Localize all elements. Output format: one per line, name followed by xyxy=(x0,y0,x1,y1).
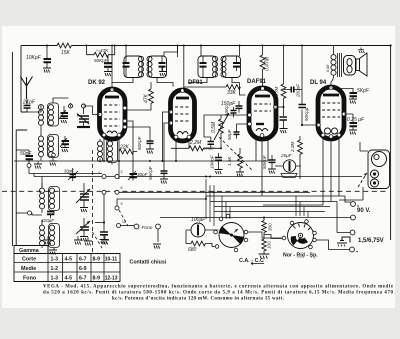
wire jack feeds xyxy=(339,142,368,200)
terminal RF low xyxy=(52,153,56,157)
terminal LT b xyxy=(317,240,358,252)
capacitor 50pF xyxy=(16,150,33,168)
capacitor 50pF daf xyxy=(227,128,240,140)
table text xyxy=(19,248,118,282)
trimmer cap 30pF mixer xyxy=(128,168,149,180)
wire left second vertical xyxy=(16,130,27,246)
IF transformer T2 loop1 xyxy=(198,56,218,78)
svg-text:10KpF: 10KpF xyxy=(210,154,215,169)
label DL 94 xyxy=(310,80,327,86)
IF transformer T2 loop2 xyxy=(221,56,241,78)
oscillator coil pair under DK92 xyxy=(97,139,117,165)
svg-text:6-7: 6-7 xyxy=(79,257,87,263)
svg-text:9: 9 xyxy=(121,202,123,206)
potentiometer 0,5M xyxy=(211,113,229,148)
wire left taps xyxy=(34,174,104,189)
pot link dashed xyxy=(219,137,252,170)
tube DK92 xyxy=(98,88,127,139)
svg-text:1,5/6,75V: 1,5/6,75V xyxy=(358,238,384,244)
svg-text:50KpF: 50KpF xyxy=(148,165,153,180)
wire x177 stub xyxy=(177,46,179,58)
svg-text:200pF: 200pF xyxy=(296,83,301,98)
wire chassis dashed line xyxy=(2,191,388,192)
capacitor 50pF df91 xyxy=(203,137,215,151)
svg-text:8-9: 8-9 xyxy=(93,276,101,282)
ground u50KpF2 xyxy=(160,179,168,184)
svg-text:4,7M: 4,7M xyxy=(274,87,279,97)
svg-text:2KpF: 2KpF xyxy=(22,100,36,106)
wire bus A2 xyxy=(29,168,102,174)
svg-text:VEGA - Mod. 415. Apparecchio s: VEGA - Mod. 415. Apparecchio supereterod… xyxy=(43,285,394,290)
svg-text:Fono: Fono xyxy=(142,225,153,231)
terminal contacts row xyxy=(98,170,126,228)
svg-text:da 520 a 1620 kc/s. Punti di t: da 520 a 1620 kc/s. Punti di taratura 58… xyxy=(43,291,394,296)
svg-text:1-3: 1-3 xyxy=(51,257,59,263)
wire osc links xyxy=(32,213,42,215)
ground under 100 xyxy=(259,251,270,259)
wire lower bus rows xyxy=(160,196,351,218)
resistor 2,2M vert xyxy=(290,136,302,179)
wire DL94 cathode drops xyxy=(263,137,339,205)
wire DAF91 left pin xyxy=(204,115,248,137)
svg-text:2,2M: 2,2M xyxy=(189,140,202,146)
electrolytic 25uF xyxy=(275,153,301,178)
trimmer upper xyxy=(59,106,68,123)
terminal 2 xyxy=(82,104,86,108)
svg-text:2,2M: 2,2M xyxy=(290,142,295,153)
svg-text:DL 94: DL 94 xyxy=(310,80,327,86)
label 90V xyxy=(357,208,371,214)
svg-text:100µF: 100µF xyxy=(191,217,206,223)
wire T2 to DAF91 grid xyxy=(240,87,246,95)
tuning cap main xyxy=(77,108,90,127)
resistor 0.47M vertical xyxy=(260,45,270,87)
svg-text:100: 100 xyxy=(267,241,272,249)
terminal LT a xyxy=(337,202,355,235)
svg-text:DF91: DF91 xyxy=(188,80,203,86)
ground mid left xyxy=(34,161,42,169)
svg-text:30pF: 30pF xyxy=(137,172,149,177)
svg-text:1-2: 1-2 xyxy=(51,266,59,272)
IF transformer T1 loop1 xyxy=(123,56,144,78)
label DAF91 xyxy=(247,79,267,85)
wire vertical A xyxy=(283,45,285,117)
svg-text:680: 680 xyxy=(188,247,197,253)
svg-text:kc/s. Potenza d’uscita indicat: kc/s. Potenza d’uscita indicata 120 mW. … xyxy=(112,297,284,302)
svg-text:25µF: 25µF xyxy=(280,153,293,158)
wire left antenna drop xyxy=(21,46,27,113)
phone jack right xyxy=(368,150,390,189)
svg-text:1-3: 1-3 xyxy=(51,276,59,282)
resistor 33K xyxy=(184,83,240,97)
label CA-CC xyxy=(239,258,264,265)
ground u50KpF xyxy=(146,149,154,154)
capacitor 50KpF top xyxy=(94,55,112,72)
resistor 47K vertical below T1 xyxy=(127,82,153,110)
svg-text:0.25 µF: 0.25 µF xyxy=(347,117,365,123)
wire switch drop verticals xyxy=(206,179,308,226)
svg-text:6-7: 6-7 xyxy=(79,276,87,282)
IF transformer T1 loop2 xyxy=(147,56,167,78)
svg-text:0,5M: 0,5M xyxy=(211,121,217,133)
svg-text:1: 1 xyxy=(98,171,100,175)
resistor 22K xyxy=(119,145,137,154)
ground under chain xyxy=(100,240,109,244)
svg-text:5KpF: 5KpF xyxy=(357,88,370,94)
label DF91 xyxy=(188,80,203,86)
ground 10KpF lower xyxy=(215,170,223,175)
ground 1,5K xyxy=(236,172,244,177)
capacitor 50KpF right xyxy=(262,154,276,169)
svg-text:47K: 47K xyxy=(144,93,150,103)
variable capacitor gang1 xyxy=(76,183,90,212)
oscillator coil pair lower xyxy=(39,220,59,250)
tube DF91 xyxy=(169,89,195,141)
ground under T1 right cap xyxy=(159,66,167,76)
svg-text:4-5: 4-5 xyxy=(65,276,73,282)
capacitor 420uF padder xyxy=(41,212,55,224)
svg-text:Gamma: Gamma xyxy=(19,248,40,254)
label DK 92 xyxy=(88,80,106,86)
resistor R 15K xyxy=(57,43,71,56)
svg-text:12-13: 12-13 xyxy=(105,276,118,282)
terminal 1 xyxy=(69,104,73,108)
capacitor 50KpF mixer2 xyxy=(148,165,168,180)
capacitor 200pF xyxy=(284,83,303,98)
antenna xyxy=(21,77,33,100)
ground under 10KpF xyxy=(43,68,51,73)
svg-text:DK 92: DK 92 xyxy=(88,80,106,86)
svg-text:Corte: Corte xyxy=(22,257,36,263)
RF coil pair lower xyxy=(38,130,58,161)
capacitor 150pF xyxy=(221,101,243,113)
svg-text:1,5K: 1,5K xyxy=(227,156,232,166)
svg-text:6-9: 6-9 xyxy=(79,266,87,272)
capacitor 10KpF top xyxy=(26,45,51,69)
svg-text:50pF: 50pF xyxy=(227,128,232,140)
label Contatti chiusi xyxy=(130,260,167,266)
capacitor 5KpF xyxy=(335,88,370,100)
gang dashed diagonal xyxy=(93,210,129,248)
capacitor 10KpF grid xyxy=(224,105,237,118)
ground under 5KpF xyxy=(349,99,357,104)
ground 50KpF right xyxy=(268,169,276,174)
battery symbol xyxy=(337,237,350,247)
svg-text:4-5: 4-5 xyxy=(65,257,73,263)
output transformer xyxy=(326,46,342,88)
svg-text:10KpF: 10KpF xyxy=(26,55,42,61)
resistor 1,5K xyxy=(227,148,242,172)
svg-text:15K: 15K xyxy=(61,50,71,56)
ground fono xyxy=(153,244,161,249)
wire frame right border xyxy=(390,44,392,240)
RF coil pair upper xyxy=(27,98,71,130)
ground under osc coils xyxy=(49,250,57,255)
svg-text:≈·47K: ≈·47K xyxy=(96,48,109,53)
capacitor chain under terminal xyxy=(95,195,108,240)
svg-text:Fono: Fono xyxy=(23,276,37,282)
wire DAF91 pin tap xyxy=(237,124,248,128)
resistor 300 xyxy=(262,218,273,233)
wire frame left border xyxy=(11,52,13,246)
ground row above table 2 xyxy=(74,236,82,245)
wire DK92 anode up xyxy=(111,45,113,90)
ground under A xyxy=(280,129,288,134)
svg-text:Contatti chiusi: Contatti chiusi xyxy=(130,260,167,266)
wire DF91 anode up xyxy=(183,45,185,91)
trimmer lower xyxy=(60,136,69,152)
svg-text:10-11: 10-11 xyxy=(105,257,118,263)
svg-text:50KpF: 50KpF xyxy=(137,135,142,150)
tube DAF91 xyxy=(248,87,278,139)
wire DAF91 drops xyxy=(256,138,268,197)
ground under 50KpF top xyxy=(104,72,112,77)
wire T2 connections xyxy=(188,45,241,83)
ground row above table x88 xyxy=(84,237,92,246)
resistor 47K top xyxy=(86,45,116,58)
svg-text:0,08: 0,08 xyxy=(326,64,330,72)
wire DK92 bottom drops xyxy=(104,137,119,179)
terminal osc xyxy=(16,211,31,215)
capacitor 10KpF lower xyxy=(210,153,223,169)
wire terminal row 3 xyxy=(117,196,206,206)
capacitor 50KpF under A xyxy=(273,101,288,128)
variable capacitor gang2 xyxy=(76,218,90,241)
capacitor 50KpF under DK92 xyxy=(137,135,154,150)
oscillator coil pair upper xyxy=(39,183,59,215)
svg-text:300: 300 xyxy=(268,223,273,231)
wire DF91 pin taps xyxy=(163,112,171,166)
switch arrow jack xyxy=(358,173,367,187)
ground row above table 3 xyxy=(101,236,109,245)
capacitor 50KpF on B xyxy=(299,105,310,122)
svg-text:2: 2 xyxy=(121,170,123,174)
junction dots xyxy=(103,147,265,218)
resistor 680 xyxy=(186,230,282,253)
wire T1 connections xyxy=(112,45,179,87)
svg-text:33K: 33K xyxy=(227,90,237,96)
resistor 4,7M xyxy=(274,84,286,98)
wire to DK92 grid pin xyxy=(84,106,100,115)
svg-text:6: 6 xyxy=(121,186,123,190)
resistor 100 xyxy=(262,239,272,251)
wire vertical B xyxy=(301,45,319,127)
ground under 0.25uF xyxy=(349,130,357,135)
capacitor 2KpF xyxy=(22,99,36,112)
gang dashed line xyxy=(92,150,94,252)
resistor 2,2M xyxy=(171,139,221,161)
wire mid bus A xyxy=(14,160,268,162)
svg-text:12: 12 xyxy=(122,220,126,224)
terminal 104-192 xyxy=(102,190,106,194)
svg-text:0,47M: 0,47M xyxy=(265,56,271,71)
rotary switch Nor-Rid-Sp xyxy=(282,220,316,249)
wire top B+ bus xyxy=(21,45,391,47)
rotary switch CA-CC xyxy=(214,214,248,252)
terminal 90V a xyxy=(340,196,359,207)
wire DAF91 plate pin to A xyxy=(278,106,285,108)
wire 300/100 tap xyxy=(264,233,283,240)
label Nor-Rid-Sp xyxy=(283,253,318,260)
speaker xyxy=(344,53,368,76)
wire DK92 pin taps xyxy=(127,121,150,168)
capacitor 0.25uF xyxy=(344,114,365,130)
jack Fono xyxy=(134,224,160,242)
electrolytic 100uF xyxy=(186,217,219,237)
ground above speaker xyxy=(358,48,364,54)
svg-text:90 V.: 90 V. xyxy=(357,208,371,214)
svg-text:50Kpµ: 50Kpµ xyxy=(304,107,309,121)
svg-text:8-9: 8-9 xyxy=(93,257,101,263)
svg-text:Medie: Medie xyxy=(21,266,36,272)
ground under RF coil lower xyxy=(49,161,57,166)
label 1,5/6,75V xyxy=(358,238,384,244)
wire terminal row 4 xyxy=(121,225,135,227)
trimmer 30pF gang xyxy=(64,168,78,181)
svg-text:50KpK: 50KpK xyxy=(273,101,278,116)
ground row above table xyxy=(44,236,52,245)
svg-text:DAF91: DAF91 xyxy=(247,79,267,85)
tube DL94 xyxy=(317,86,346,139)
svg-text:50KpF: 50KpF xyxy=(262,154,267,169)
svg-text:150µF: 150µF xyxy=(203,146,215,151)
terminal 90V b xyxy=(351,215,356,220)
wire mid bus B xyxy=(104,176,362,178)
svg-text:420µF: 420µF xyxy=(41,218,55,223)
